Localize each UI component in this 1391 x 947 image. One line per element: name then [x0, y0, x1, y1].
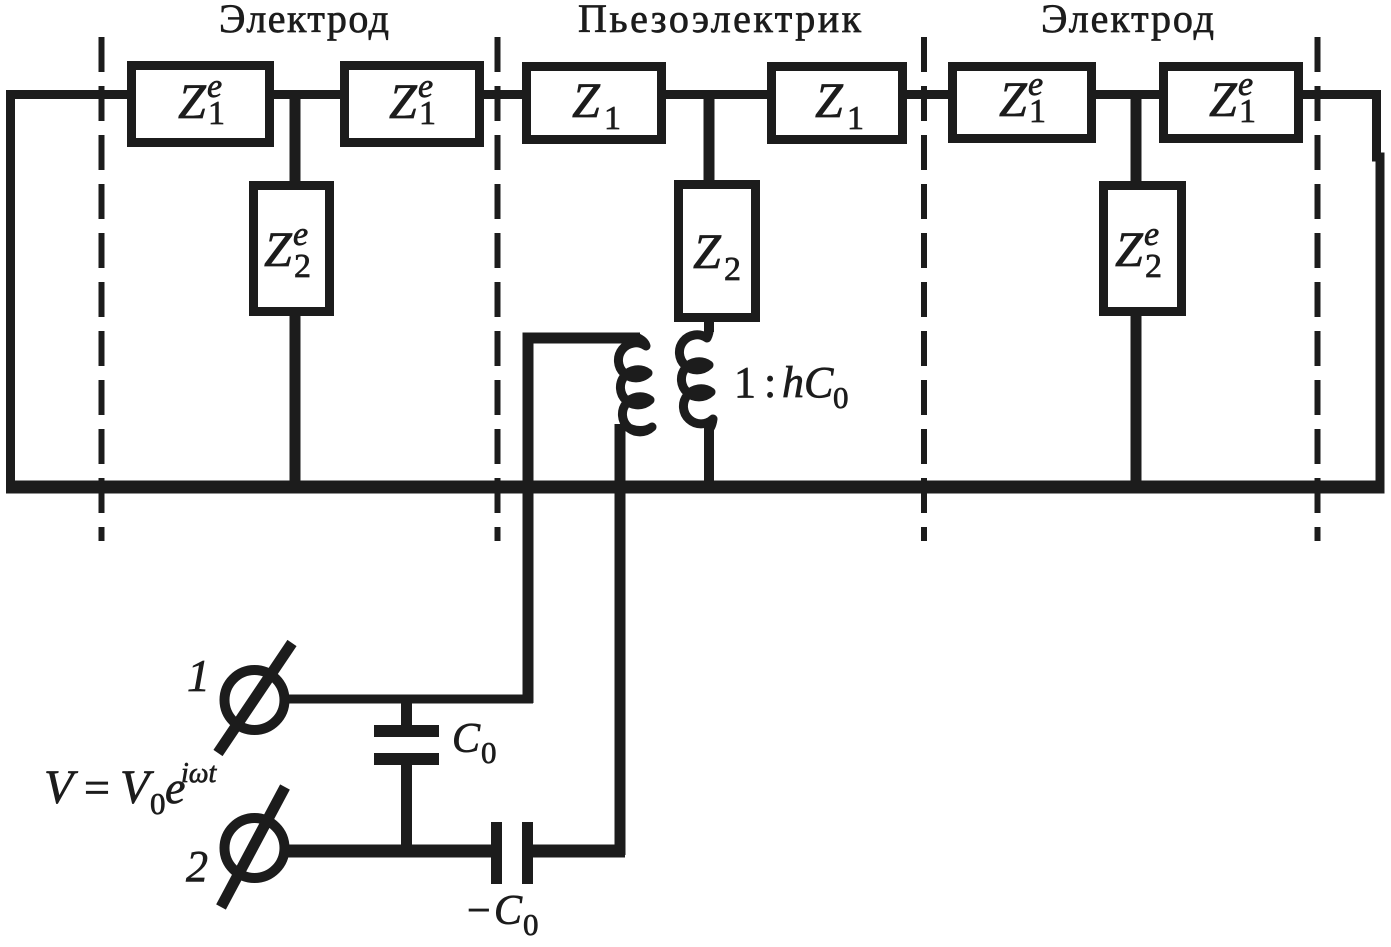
svg-text:1: 1 [734, 358, 756, 407]
svg-text:2: 2 [724, 251, 741, 288]
impedance Z1 box 4 [772, 67, 903, 140]
dashed boundary line electrode/piezo left [495, 37, 501, 541]
svg-text:2: 2 [1145, 248, 1162, 285]
impedance Z1e box 6 [1164, 66, 1299, 139]
svg-text:Z: Z [389, 73, 418, 129]
transformer T1 primary winding [618, 337, 652, 432]
wire top rail [6, 90, 1378, 99]
svg-text::: : [764, 358, 776, 407]
svg-text:V: V [44, 761, 78, 814]
dashed boundary line right electrode [1315, 37, 1321, 541]
svg-text:Z: Z [1115, 221, 1144, 277]
node junction right shunt [1131, 94, 1142, 186]
svg-text:iωt: iωt [181, 758, 218, 789]
wire right shunt to bus [1131, 311, 1142, 487]
label C0 [452, 716, 497, 770]
svg-text:1: 1 [419, 95, 436, 132]
impedance Z1 box 3 [527, 67, 662, 140]
svg-text:2: 2 [294, 248, 311, 285]
svg-text:0: 0 [523, 907, 539, 942]
node junction left shunt [290, 94, 301, 186]
svg-text:0: 0 [481, 735, 497, 770]
svg-text:1: 1 [208, 95, 225, 132]
svg-text:1: 1 [187, 650, 210, 701]
impedance Z1e box 5 [953, 66, 1092, 139]
svg-text:V: V [120, 761, 154, 814]
svg-text:Z: Z [1209, 71, 1238, 127]
svg-text:hC: hC [782, 358, 834, 407]
svg-text:Z: Z [999, 71, 1028, 127]
svg-text:Z: Z [572, 72, 601, 128]
impedance Z2e shunt left [254, 186, 330, 312]
wire capacitor -C0 to transformer [531, 845, 625, 858]
svg-text:0: 0 [150, 786, 166, 821]
wire center shunt to transformer [704, 316, 714, 332]
wire transformer primary bottom lead [615, 424, 626, 855]
wire transformer secondary to bus [704, 426, 714, 487]
svg-text:Пьезоэлектрик: Пьезоэлектрик [578, 0, 862, 41]
wire transformer primary top lead [528, 338, 640, 703]
wire left shunt to bus [290, 311, 301, 487]
node junction center shunt [704, 94, 715, 186]
dashed boundary line left electrode [99, 37, 105, 541]
svg-text:1: 1 [1239, 93, 1256, 130]
wire bottom bus [6, 481, 1385, 494]
capacitor -C0 [491, 822, 533, 884]
label transformer ratio 1:hC0 [734, 358, 849, 415]
impedance Z1e box 1 [132, 66, 270, 143]
capacitor C0 [374, 725, 439, 765]
svg-text:Z: Z [178, 73, 207, 129]
svg-text:=: = [84, 762, 110, 813]
svg-text:2: 2 [186, 842, 208, 891]
impedance Z2 shunt center [679, 185, 756, 318]
svg-text:Z: Z [264, 221, 293, 277]
svg-text:1: 1 [847, 100, 864, 137]
capacitor C0 bottom lead [401, 764, 412, 851]
svg-text:C: C [452, 716, 481, 762]
wire terminal 1 to transformer [285, 695, 533, 704]
svg-text:Z: Z [815, 72, 844, 128]
svg-text:Электрод: Электрод [219, 0, 389, 41]
svg-text:Z: Z [693, 223, 722, 279]
label -C0 [467, 888, 539, 942]
terminal 2 [221, 787, 285, 907]
svg-text:−: − [467, 888, 491, 934]
svg-text:1: 1 [604, 100, 621, 137]
wire terminal 2 to capacitor -C0 [286, 845, 493, 858]
capacitor C0 top lead [401, 699, 412, 726]
transformer T1 secondary winding [679, 322, 713, 430]
impedance Z1e box 2 [345, 66, 480, 143]
svg-text:C: C [494, 888, 523, 934]
wire left vertical [6, 90, 15, 492]
dashed boundary line piezo/electrode right [921, 37, 927, 541]
label source V=V0e^iwt [44, 758, 218, 821]
wire right vertical [1377, 90, 1381, 492]
terminal 1 [218, 643, 292, 753]
impedance Z2e shunt right [1104, 186, 1182, 312]
svg-text:1: 1 [1029, 93, 1046, 130]
svg-text:0: 0 [833, 380, 849, 415]
